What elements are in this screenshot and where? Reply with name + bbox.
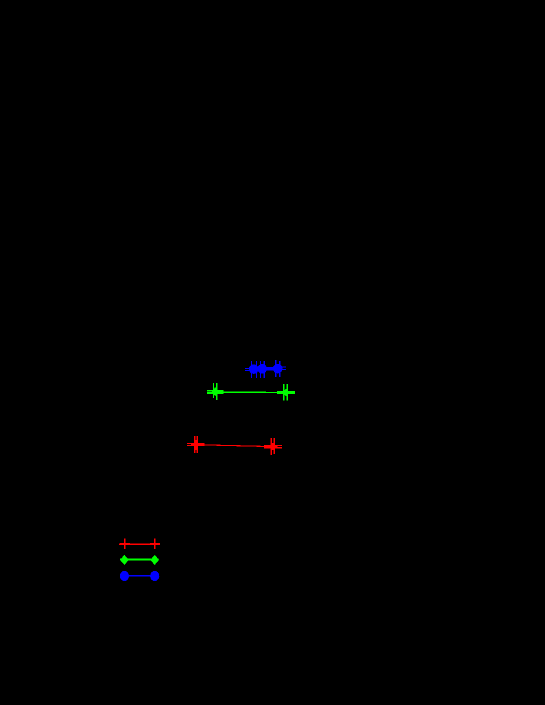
red right data point (plus markers, merged mass) — [264, 443, 278, 450]
legend blue circle marker 1 — [120, 571, 129, 581]
green connector line — [219, 391, 284, 393]
red left data point (plus markers, merged mass) — [191, 440, 205, 450]
legend blue circle marker 2 — [150, 571, 159, 581]
green left point error bars — [207, 383, 224, 400]
blue data points (filled circles) — [249, 364, 283, 374]
legend green diamond marker 2 — [150, 555, 159, 565]
green right data point (diamond) — [282, 389, 290, 396]
legend red plus marker 2 — [150, 539, 160, 550]
legend red plus marker 1 — [120, 539, 130, 550]
green left data point (diamond) — [212, 387, 219, 396]
red connector line — [205, 445, 265, 447]
legend green sample line — [120, 559, 159, 561]
red right point error bars — [271, 438, 282, 455]
legend blue sample line — [124, 575, 155, 576]
legend green diamond marker 1 — [120, 555, 129, 565]
green right point error bars — [277, 384, 295, 401]
legend red sample line — [119, 544, 160, 545]
red left point error bars — [187, 436, 198, 453]
blue dataset error bars — [245, 360, 286, 378]
